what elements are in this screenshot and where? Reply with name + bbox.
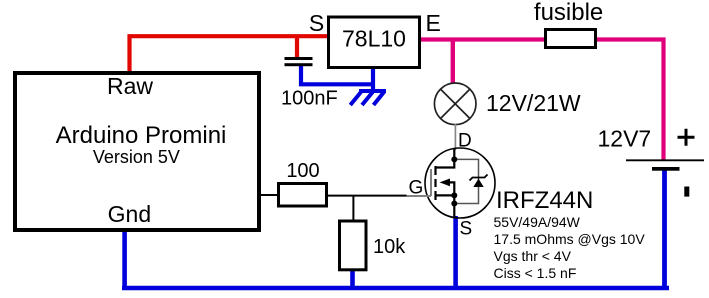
svg-text:55V/49A/94W: 55V/49A/94W [494, 214, 581, 230]
svg-text:10k: 10k [373, 236, 406, 258]
svg-text:Version 5V: Version 5V [93, 147, 180, 167]
svg-text:G: G [409, 178, 424, 199]
svg-text:12V/21W: 12V/21W [486, 90, 581, 116]
svg-text:S: S [460, 219, 473, 240]
svg-text:12V7: 12V7 [598, 126, 652, 152]
svg-text:100: 100 [286, 160, 319, 182]
svg-text:Vgs thr < 4V: Vgs thr < 4V [494, 248, 572, 264]
svg-text:fusible: fusible [534, 0, 603, 26]
svg-text:Gnd: Gnd [108, 201, 151, 227]
svg-text:IRFZ44N: IRFZ44N [496, 187, 593, 214]
svg-text:Ciss < 1.5 nF: Ciss < 1.5 nF [494, 265, 577, 281]
svg-text:78L10: 78L10 [342, 26, 406, 52]
svg-text:S: S [309, 10, 324, 36]
svg-text:Arduino Promini: Arduino Promini [56, 122, 227, 149]
svg-text:17.5 mOhms @Vgs 10V: 17.5 mOhms @Vgs 10V [494, 231, 646, 247]
svg-text:100nF: 100nF [281, 88, 338, 110]
svg-text:E: E [426, 10, 441, 36]
svg-text:Raw: Raw [107, 73, 153, 99]
